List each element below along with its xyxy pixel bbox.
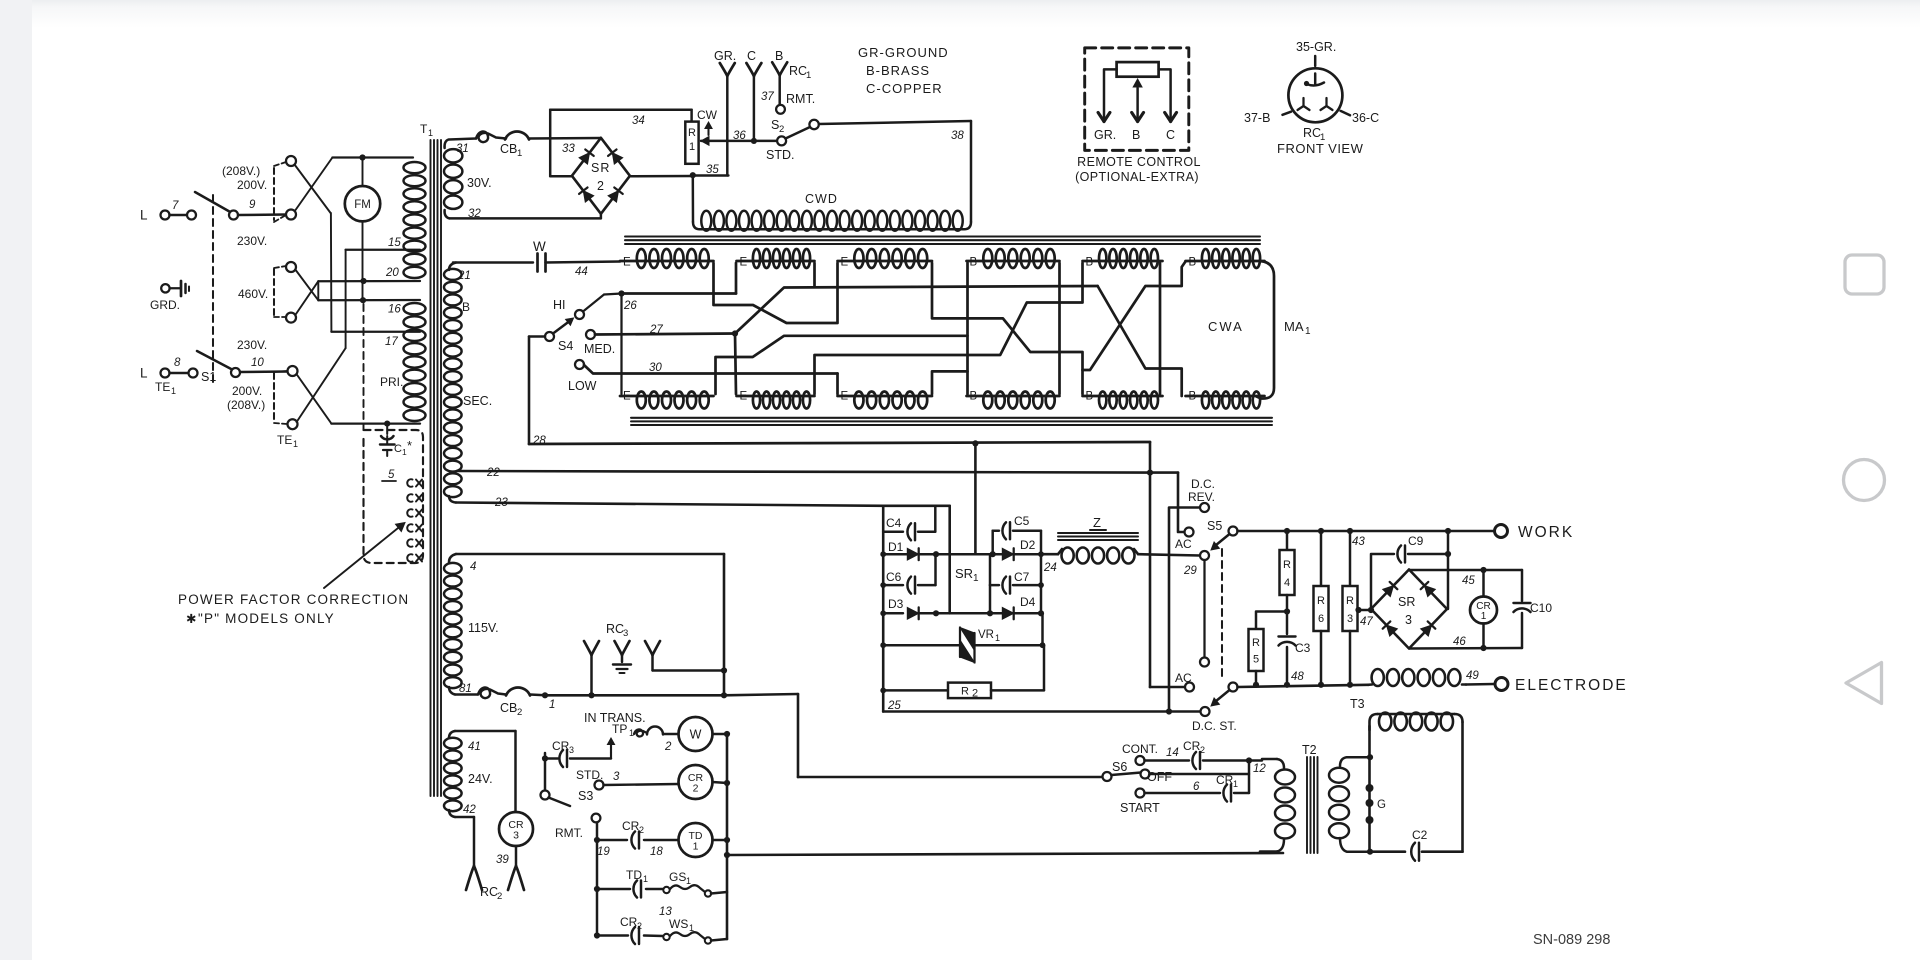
wire 12 to T2 — [1249, 759, 1277, 761]
rectifier box SR1 left edge — [883, 506, 950, 712]
svg-text:✱: ✱ — [186, 612, 197, 626]
antenna RC2 right — [508, 846, 524, 890]
switch S5 upper — [1183, 519, 1238, 577]
meter W — [679, 717, 731, 751]
svg-text:FM: FM — [354, 199, 371, 211]
svg-text:SR: SR — [1398, 595, 1415, 609]
wire S3 STD to CR2 — [604, 784, 679, 785]
rectifier CR1 — [1470, 570, 1497, 651]
svg-text:SR: SR — [955, 566, 973, 581]
svg-text:C10: C10 — [1530, 601, 1552, 615]
contact CR2 18 19 — [597, 819, 678, 858]
remote wire C arrow — [1159, 69, 1177, 121]
reactor MA1 bottom core — [631, 418, 1272, 425]
capacitor W — [533, 239, 620, 278]
reactor weave wires — [714, 261, 1275, 399]
bus relay right — [724, 734, 1283, 939]
wire 36 with arrow — [701, 130, 777, 145]
svg-text:(OPTIONAL-EXTRA): (OPTIONAL-EXTRA) — [1075, 170, 1199, 184]
reactor winding bottom section 6 B — [1186, 391, 1265, 409]
contact TD1 row — [597, 868, 663, 898]
wire DC REV branch — [1169, 508, 1200, 712]
svg-text:30: 30 — [649, 362, 662, 374]
wire RMT vertical — [594, 823, 600, 939]
diode D3 — [880, 597, 936, 619]
svg-text:R: R — [1283, 559, 1291, 571]
antenna B RC1 — [772, 49, 811, 105]
svg-text:C5: C5 — [1014, 514, 1030, 528]
crossover wire 460V to 16 — [295, 281, 420, 315]
diode D4 — [933, 585, 1044, 619]
svg-text:C-COPPER: C-COPPER — [866, 81, 943, 96]
contact CR2 bottom row — [597, 915, 663, 944]
label 25 — [887, 700, 901, 712]
svg-text:R: R — [688, 127, 696, 139]
wire 27 — [595, 324, 738, 337]
wire 24 and choke Z — [1038, 551, 1058, 574]
resistor R5 — [1249, 612, 1288, 685]
svg-text:VR: VR — [978, 629, 994, 641]
svg-text:CONT.: CONT. — [1122, 742, 1158, 756]
junction dots left section — [359, 154, 390, 426]
voltage tap labels — [222, 164, 298, 449]
switch WS1 — [663, 917, 727, 944]
svg-text:REV.: REV. — [1188, 490, 1215, 504]
diode D1 — [883, 540, 936, 560]
crossover wire 200V to top — [295, 158, 413, 212]
svg-text:E: E — [841, 257, 849, 269]
svg-text:C6: C6 — [886, 570, 902, 584]
wire 22 branch to AC — [1178, 473, 1185, 532]
reactor winding top section 6 B — [1186, 249, 1265, 269]
svg-text:(208V.): (208V.) — [222, 164, 260, 178]
svg-text:FRONT VIEW: FRONT VIEW — [1277, 141, 1364, 156]
coil CWD — [700, 192, 964, 231]
winding T1 secondary — [444, 263, 492, 503]
svg-text:OFF: OFF — [1147, 770, 1172, 784]
svg-text:W: W — [690, 728, 702, 742]
svg-text:S3: S3 — [578, 789, 593, 803]
svg-text:1: 1 — [517, 148, 522, 159]
antenna C — [746, 49, 761, 141]
antenna GR — [714, 49, 736, 176]
svg-text:D.C.: D.C. — [1191, 477, 1215, 491]
svg-text:SEC.: SEC. — [463, 394, 492, 408]
svg-text:C3: C3 — [1295, 641, 1311, 655]
legend ground brass copper — [858, 45, 949, 96]
svg-text:RC: RC — [480, 885, 498, 899]
svg-text:35-GR.: 35-GR. — [1296, 40, 1336, 54]
svg-text:24V.: 24V. — [468, 772, 493, 786]
svg-text:C9: C9 — [1408, 534, 1424, 548]
svg-text:C4: C4 — [886, 516, 902, 530]
svg-text:2: 2 — [972, 688, 978, 700]
svg-text:1: 1 — [693, 841, 699, 853]
contact START 6 CR1 — [1120, 773, 1249, 815]
capacitor C5 — [993, 514, 1041, 554]
wire OFF row — [1150, 761, 1250, 794]
svg-text:49: 49 — [1466, 670, 1479, 682]
label RC2 — [480, 885, 502, 902]
label SR1 — [955, 566, 979, 584]
svg-text:29: 29 — [1183, 565, 1197, 577]
svg-text:MED.: MED. — [584, 342, 615, 356]
breaker CB2 — [455, 683, 555, 718]
dashed tap bus — [274, 162, 287, 424]
wire 29 lower terminal — [1200, 560, 1209, 667]
svg-text:E: E — [623, 257, 631, 269]
terminal RMT 37 — [761, 91, 815, 114]
wire 9 — [238, 199, 286, 215]
antenna RC3 center with ground — [613, 641, 631, 673]
svg-text:1: 1 — [686, 876, 691, 886]
svg-text:MA: MA — [1284, 319, 1304, 334]
svg-text:CR: CR — [622, 819, 640, 833]
svg-text:START: START — [1120, 801, 1160, 815]
svg-text:2: 2 — [517, 707, 522, 718]
rectifier SR3 — [1355, 570, 1447, 649]
svg-text:SR: SR — [591, 161, 610, 175]
rectifier SR2 — [562, 138, 630, 214]
svg-text:1: 1 — [806, 70, 811, 81]
svg-text:E: E — [623, 391, 631, 403]
svg-text:37-B: 37-B — [1244, 111, 1270, 125]
svg-text:44: 44 — [575, 266, 588, 278]
power factor correction capacitors — [407, 479, 422, 562]
fuse TP1 with arrow — [607, 727, 678, 754]
relay CR3 — [496, 812, 533, 866]
svg-text:81: 81 — [459, 683, 472, 695]
wire 22 — [457, 467, 1178, 479]
power factor dashed box — [364, 430, 424, 563]
svg-text:RC: RC — [1303, 126, 1321, 140]
reactor labels CWA MA1 — [1208, 319, 1311, 337]
rectifier SR1 right edge — [1041, 554, 1043, 645]
svg-text:D1: D1 — [888, 540, 904, 554]
svg-text:20: 20 — [385, 267, 399, 279]
svg-text:GR.: GR. — [1094, 128, 1116, 142]
svg-text:3: 3 — [613, 771, 620, 783]
wire 28 — [529, 435, 1150, 447]
wire to T1 bottom — [297, 375, 420, 424]
svg-text:43: 43 — [1352, 536, 1365, 548]
svg-text:C: C — [747, 49, 756, 63]
relay TD1 — [679, 823, 731, 857]
svg-text:RC: RC — [789, 64, 807, 78]
winding T1 24V — [444, 731, 493, 817]
dashed interlock line — [212, 195, 214, 387]
svg-text:T3: T3 — [1350, 697, 1365, 711]
wire SR1 row D1 D2 — [880, 551, 1041, 557]
svg-text:L: L — [140, 208, 148, 223]
wire 23 — [456, 497, 883, 509]
wire box 38 top — [819, 121, 971, 229]
svg-text:35: 35 — [706, 164, 719, 176]
svg-text:1: 1 — [689, 141, 695, 153]
capacitor CR3 — [542, 739, 611, 767]
svg-text:1: 1 — [293, 439, 298, 449]
svg-text:22: 22 — [486, 467, 500, 479]
svg-text:E: E — [841, 391, 849, 403]
svg-text:41: 41 — [468, 741, 481, 753]
dashed line to C1 — [363, 304, 365, 430]
receptacle RC1 front view — [1244, 40, 1379, 156]
svg-text:ELECTRODE: ELECTRODE — [1515, 677, 1628, 694]
contact AC lower — [1175, 671, 1194, 692]
switch S4 selector — [545, 294, 622, 394]
svg-text:3: 3 — [623, 628, 628, 639]
svg-text:230V.: 230V. — [237, 234, 267, 248]
remote labels — [1094, 128, 1175, 142]
reactor winding bottom section 5 B — [1083, 391, 1163, 409]
svg-text:30V.: 30V. — [467, 176, 492, 190]
svg-text:460V.: 460V. — [238, 287, 268, 301]
svg-text:D4: D4 — [1020, 595, 1036, 609]
choke Z coil — [1058, 548, 1200, 564]
svg-text:6: 6 — [1318, 613, 1324, 625]
capacitor C2 — [1411, 828, 1462, 861]
fan motor FM — [345, 158, 380, 303]
svg-text:1: 1 — [428, 128, 433, 138]
remote control dashed box — [1085, 48, 1189, 150]
resistor R3 — [1343, 531, 1358, 685]
svg-text:10: 10 — [251, 357, 264, 369]
switch S6 — [1103, 760, 1173, 784]
svg-text:GRD.: GRD. — [150, 298, 180, 312]
terminal ELECTRODE — [1495, 677, 1628, 694]
switch S1 — [197, 351, 240, 384]
svg-text:34: 34 — [632, 115, 645, 127]
svg-text:33: 33 — [562, 143, 575, 155]
svg-text:R: R — [1346, 595, 1354, 607]
wire 45 — [1409, 567, 1522, 587]
svg-text:8: 8 — [174, 357, 181, 369]
svg-text:39: 39 — [496, 854, 509, 866]
wire 26 — [618, 290, 736, 312]
varistor VR1 — [880, 628, 1045, 663]
svg-text:17: 17 — [385, 336, 398, 348]
wire 4 box — [456, 554, 727, 698]
drawing number SN-089 298 — [1533, 932, 1610, 948]
capacitor C4 — [883, 506, 935, 541]
svg-text:6: 6 — [1193, 781, 1200, 793]
relay CR2 — [679, 765, 731, 799]
svg-text:27: 27 — [649, 324, 663, 336]
reactor winding top section 5 B — [1083, 249, 1163, 269]
wire 24V to CR3 relay — [455, 731, 516, 812]
svg-text:E: E — [740, 257, 748, 269]
svg-text:2: 2 — [693, 783, 699, 795]
capacitor C7 — [990, 554, 1044, 593]
work bus wire — [1238, 528, 1495, 548]
thermal switch GS1 — [659, 870, 727, 918]
svg-text:2: 2 — [779, 124, 784, 135]
ground terminal GRD — [150, 281, 189, 312]
svg-text:L: L — [140, 366, 148, 381]
labels DC REV — [1188, 477, 1215, 504]
nav recents square icon — [1845, 255, 1884, 294]
wire 30 — [584, 362, 838, 374]
capacitor C9 — [1371, 531, 1451, 609]
svg-text:SN-089 298: SN-089 298 — [1533, 932, 1610, 948]
svg-text:36: 36 — [733, 130, 746, 142]
svg-text:5: 5 — [388, 469, 395, 481]
svg-text:CW: CW — [697, 108, 718, 122]
switch S2 — [766, 118, 819, 162]
svg-text:1: 1 — [973, 573, 979, 584]
svg-text:B: B — [970, 391, 978, 403]
reactor winding top section 2 E — [737, 249, 815, 269]
wire SR1 bottom to DC ST — [883, 708, 1200, 714]
contact AC upper — [1175, 528, 1194, 552]
svg-text:"P" MODELS ONLY: "P" MODELS ONLY — [198, 611, 335, 626]
svg-text:115V.: 115V. — [468, 621, 499, 635]
diode D2 — [1002, 538, 1035, 560]
svg-text:B: B — [1189, 391, 1197, 403]
svg-text:T2: T2 — [1302, 743, 1317, 757]
switch S3 — [541, 753, 601, 840]
svg-text:C7: C7 — [1014, 570, 1030, 584]
switch S5 lower — [1192, 683, 1238, 734]
svg-text:1: 1 — [1233, 779, 1238, 789]
wire from 28 to SR1 — [972, 440, 978, 554]
label IN TRANS TP1 — [584, 711, 646, 738]
svg-text:19: 19 — [597, 846, 610, 858]
svg-text:D2: D2 — [1020, 538, 1036, 552]
svg-text:S1: S1 — [201, 370, 216, 384]
svg-text:7: 7 — [172, 200, 179, 212]
winding T1 primary lower — [404, 303, 426, 421]
tap contact circles — [286, 156, 298, 429]
svg-text:9: 9 — [249, 199, 256, 211]
svg-text:STD.: STD. — [766, 148, 794, 162]
reactor winding top section 3 E — [838, 249, 933, 269]
svg-text:HI: HI — [553, 298, 566, 312]
svg-text:RMT.: RMT. — [555, 826, 583, 840]
wire 35 — [630, 164, 729, 178]
svg-text:GR-GROUND: GR-GROUND — [858, 45, 949, 60]
wire 1 to S6 — [545, 694, 1103, 777]
svg-text:C2: C2 — [1412, 828, 1428, 842]
svg-text:38: 38 — [951, 130, 964, 142]
wire 28 branch vertical — [1147, 442, 1185, 687]
power factor correction text — [178, 592, 409, 626]
electrode bus wire — [1238, 671, 1369, 688]
svg-text:S4: S4 — [558, 339, 573, 353]
svg-text:26: 26 — [623, 300, 637, 312]
svg-text:18: 18 — [650, 846, 663, 858]
wire to CWD — [693, 175, 700, 229]
svg-text:3: 3 — [1405, 613, 1412, 627]
svg-text:16: 16 — [388, 304, 401, 316]
svg-text:B: B — [1189, 257, 1197, 269]
wire 10 — [240, 357, 288, 372]
remote wire GR arrow — [1098, 69, 1117, 121]
svg-text:200V.: 200V. — [232, 384, 262, 398]
svg-text:S6: S6 — [1112, 760, 1127, 774]
switch blade line 7 — [195, 192, 238, 220]
svg-text:2: 2 — [597, 179, 604, 193]
svg-text:B: B — [462, 300, 470, 314]
svg-text:23: 23 — [494, 497, 508, 509]
svg-text:S5: S5 — [1207, 519, 1222, 533]
rheostat R1 — [685, 108, 717, 164]
nav home circle icon — [1844, 460, 1885, 501]
resistor R6 — [1314, 531, 1329, 685]
svg-text:4: 4 — [1284, 577, 1290, 589]
svg-text:2: 2 — [664, 741, 672, 753]
winding T1 115V — [444, 554, 499, 695]
svg-text:CWD: CWD — [805, 192, 838, 206]
tap number labels 15 20 16 17 PRI — [380, 237, 403, 389]
reactor winding bottom section 4 B — [967, 391, 1060, 409]
svg-text:RC: RC — [606, 622, 624, 636]
svg-text:B: B — [970, 257, 978, 269]
transformer T2 — [1260, 743, 1370, 853]
svg-text:37: 37 — [761, 91, 774, 103]
svg-text:*: * — [407, 438, 412, 453]
label RC3 — [606, 622, 628, 639]
wire 15 feed — [297, 250, 420, 422]
svg-text:12: 12 — [1253, 763, 1266, 775]
capacitor C1 — [380, 424, 412, 457]
switch S4 pivot wire 28 — [529, 337, 545, 445]
svg-text:24: 24 — [1043, 562, 1057, 574]
svg-text:230V.: 230V. — [237, 338, 267, 352]
svg-text:REMOTE CONTROL: REMOTE CONTROL — [1077, 155, 1201, 169]
svg-text:45: 45 — [1462, 575, 1475, 587]
wire 31 to CB1 — [449, 131, 601, 159]
resistor R4 — [1280, 531, 1295, 615]
svg-text:1: 1 — [171, 386, 176, 396]
svg-text:2: 2 — [497, 891, 502, 902]
terminal WORK — [1495, 524, 1575, 541]
svg-text:TE: TE — [155, 380, 170, 394]
svg-text:C: C — [1166, 128, 1175, 142]
svg-text:B: B — [1132, 128, 1140, 142]
svg-text:WS: WS — [669, 917, 688, 931]
winding T1 primary upper — [404, 162, 426, 278]
svg-text:D.C. ST.: D.C. ST. — [1192, 719, 1237, 733]
antenna RC3 left — [584, 641, 599, 698]
svg-text:POWER FACTOR CORRECTION: POWER FACTOR CORRECTION — [178, 592, 409, 607]
reactor MA1 top core — [625, 237, 1260, 245]
svg-text:R: R — [1252, 637, 1260, 649]
svg-text:B: B — [1086, 391, 1094, 403]
svg-text:GS: GS — [669, 870, 686, 884]
svg-text:T: T — [420, 122, 428, 136]
svg-text:CWA: CWA — [1208, 319, 1244, 334]
reactor winding bottom section 3 E — [838, 391, 933, 409]
dashed link S5 — [1221, 549, 1223, 676]
reactor winding top section 4 B — [967, 249, 1060, 269]
terminal L line 7 — [140, 200, 196, 223]
label 30V — [467, 176, 492, 190]
arrow CW up — [705, 122, 712, 135]
terminal L line 8 TE1 — [140, 357, 198, 396]
contact CONT 14 CR2 — [1122, 739, 1266, 775]
svg-text:D3: D3 — [888, 597, 904, 611]
crossover wire 208V to 17 — [295, 165, 421, 332]
svg-text:R: R — [1317, 595, 1325, 607]
winding T1 30V — [444, 140, 462, 219]
crossover wire 230V to 20 — [295, 270, 420, 301]
transformer T1 label — [420, 122, 433, 138]
svg-text:TD: TD — [626, 868, 642, 882]
resistor R2 — [880, 645, 1044, 699]
svg-text:R: R — [961, 686, 969, 698]
remote potentiometer — [1117, 62, 1159, 77]
